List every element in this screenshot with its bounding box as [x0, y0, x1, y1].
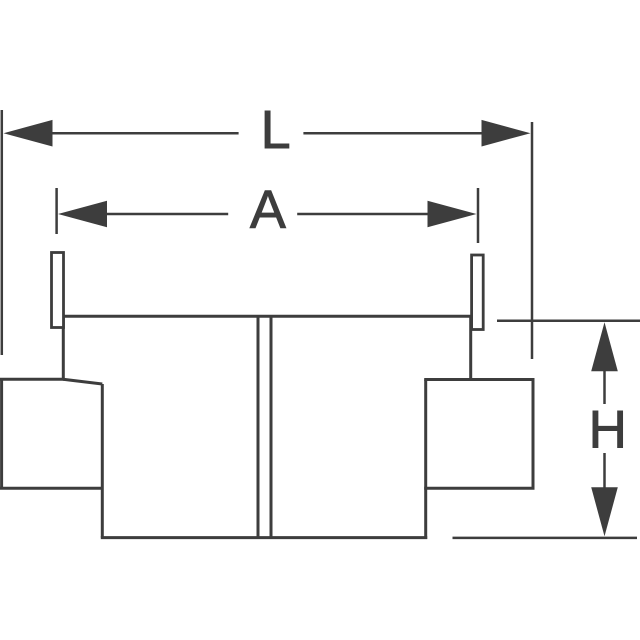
- dimension H bottom arrowhead: [591, 487, 618, 536]
- dimension A line right segment: [297, 213, 429, 216]
- dimension L left extension line: [1, 110, 4, 355]
- dimension L left arrowhead: [4, 120, 53, 147]
- dimension A left arrowhead: [58, 201, 107, 228]
- dimension H line upper segment: [603, 369, 606, 404]
- dimension L line left segment: [50, 132, 239, 135]
- dimension H bottom reference line: [453, 537, 638, 540]
- left terminal block left edge: [0, 378, 3, 490]
- right terminal block top edge: [424, 378, 534, 381]
- left terminal block chamfer: [63, 379, 102, 384]
- body top line: [63, 315, 472, 318]
- body upper-left edge: [62, 316, 65, 380]
- right lead tab: [472, 255, 484, 330]
- left terminal block bottom edge: [0, 487, 104, 490]
- right terminal block right edge: [532, 378, 535, 490]
- body left edge: [101, 384, 104, 538]
- left lead tab: [52, 253, 64, 328]
- dimension A right arrowhead: [428, 201, 477, 228]
- body bottom edge: [101, 536, 427, 539]
- dimension L right arrowhead: [482, 120, 531, 147]
- dimension A left extension line: [55, 188, 58, 234]
- right terminal block bottom edge: [424, 487, 534, 490]
- center seam line right: [270, 316, 273, 537]
- dimension L line right segment: [303, 132, 484, 135]
- dimension H top arrowhead: [591, 322, 618, 371]
- dimension H line lower segment: [603, 453, 606, 489]
- svg-text:A: A: [250, 180, 286, 240]
- dimension A line left segment: [105, 213, 228, 216]
- dimension L right extension line: [531, 122, 534, 359]
- body upper-right edge: [469, 316, 472, 379]
- dimension H top reference line: [497, 319, 640, 322]
- left terminal block top edge: [0, 378, 65, 381]
- body lower-right edge: [424, 380, 427, 540]
- dimension A right extension line: [477, 188, 480, 243]
- svg-text:H: H: [589, 401, 627, 460]
- center seam line left: [257, 316, 260, 537]
- svg-text:L: L: [261, 100, 291, 160]
